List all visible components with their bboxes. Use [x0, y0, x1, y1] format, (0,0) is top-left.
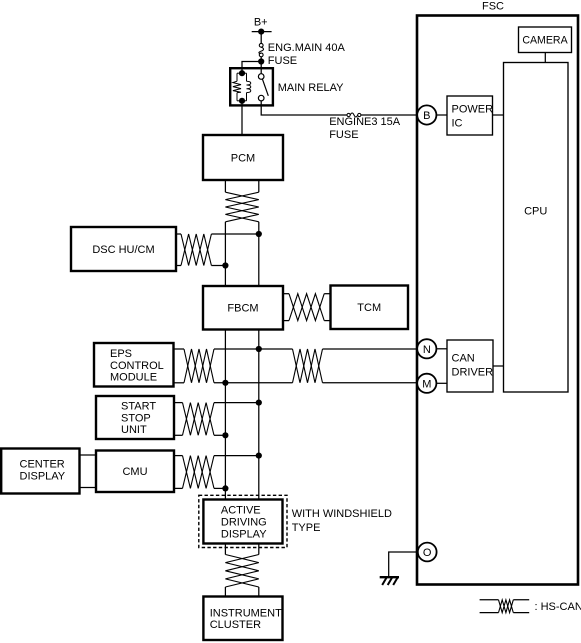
svg-text:N: N: [423, 344, 431, 356]
svg-text:PCM: PCM: [231, 153, 255, 165]
svg-text:ENG.MAIN 40A: ENG.MAIN 40A: [268, 42, 346, 54]
wire EPS CAN-L across buses: [214, 382, 293, 384]
svg-text:O: O: [423, 547, 432, 559]
wire CAMERA to CPU: [544, 53, 546, 63]
relay coil (resistor + inductor in parallel): [233, 73, 251, 101]
svg-text:MAIN RELAY: MAIN RELAY: [278, 82, 344, 94]
relay switch contact bottom: [258, 95, 264, 101]
svg-text:ACTIVE: ACTIVE: [221, 505, 261, 517]
relay coil top pin: [239, 70, 245, 76]
relay coil bottom pin: [239, 98, 245, 104]
junction DSC CAN-L on left bus: [222, 262, 228, 268]
module START STOP UNIT: [96, 396, 174, 439]
svg-text:CMU: CMU: [122, 466, 147, 478]
junction CMU CAN-H on right bus: [256, 453, 262, 459]
fuse F1 ENG.MAIN 40A: [259, 43, 264, 56]
svg-text:DISPLAY: DISPLAY: [20, 470, 66, 482]
wire CAN DRIVER to CPU: [493, 365, 504, 367]
junction SSU CAN-L on left bus: [222, 432, 228, 438]
junction DSC CAN-H on right bus: [256, 231, 262, 237]
node B+: [252, 17, 272, 35]
svg-text:: HS-CAN: : HS-CAN: [535, 601, 581, 613]
svg-text:DSC HU/CM: DSC HU/CM: [92, 244, 154, 256]
terminal M: [417, 374, 436, 393]
svg-text:FUSE: FUSE: [329, 129, 358, 141]
wire POWER IC to CPU: [493, 114, 504, 116]
wire junction to relay switch: [260, 62, 262, 74]
svg-text:DRIVING: DRIVING: [221, 517, 267, 529]
module EPS CONTROL MODULE: [94, 343, 174, 387]
module DSC HU/CM: [71, 227, 176, 271]
wire pair to INSTRUMENT CLUSTER (left): [224, 587, 226, 597]
wire CENTER DISPLAY to CMU (bottom): [80, 487, 97, 489]
svg-text:FUSE: FUSE: [268, 55, 297, 67]
relay MAIN RELAY box: [230, 68, 273, 105]
svg-text:B: B: [423, 110, 430, 122]
junction relay input: [258, 58, 264, 64]
bus left wire (FBCM to ADD): [224, 330, 226, 500]
bus right wire (FBCM to ADD): [258, 330, 260, 500]
junction SSU CAN-H on right bus: [256, 400, 262, 406]
svg-text:UNIT: UNIT: [121, 424, 147, 436]
twisted pair PCM-FBCM: [225, 192, 258, 222]
wire PCM to twisted pair (right): [258, 180, 260, 192]
wire B+ to fuse F1: [260, 32, 262, 44]
terminal B: [417, 105, 436, 124]
module POWER IC: [447, 96, 493, 135]
svg-text:CLUSTER: CLUSTER: [210, 619, 261, 631]
relay switch contact top: [258, 74, 264, 80]
svg-text:START: START: [121, 401, 156, 413]
module FBCM: [203, 286, 283, 330]
wire pair to INSTRUMENT CLUSTER (right): [258, 587, 260, 597]
wire PCM to twisted pair (left): [224, 180, 226, 192]
twisted pair DSC HU/CM to bus: [176, 234, 259, 266]
svg-text:IC: IC: [452, 118, 463, 130]
relay switch blade: [262, 79, 268, 96]
svg-text:FSC: FSC: [482, 1, 504, 13]
module CENTER DISPLAY: [1, 449, 79, 494]
svg-text:EPS: EPS: [110, 348, 132, 360]
twisted pair START STOP UNIT to bus: [174, 403, 259, 436]
twisted pair FBCM to TCM: [283, 294, 331, 321]
ground: [380, 577, 399, 585]
svg-text:B+: B+: [254, 17, 268, 29]
svg-text:INSTRUMENT: INSTRUMENT: [210, 607, 282, 619]
wire relay coil to PCM: [241, 101, 243, 135]
wire terminal M to CAN DRIVER: [436, 382, 447, 384]
wire fuse F1 to relay junction: [260, 57, 262, 62]
wire junction to relay coil: [242, 62, 261, 74]
svg-text:CAN: CAN: [452, 353, 475, 365]
svg-text:MODULE: MODULE: [110, 372, 157, 384]
svg-text:CENTER: CENTER: [20, 459, 65, 471]
wire terminal N to CAN DRIVER: [436, 348, 447, 350]
module CMU: [96, 451, 174, 493]
twisted pair ADD to INSTRUMENT CLUSTER: [225, 555, 258, 588]
svg-text:DISPLAY: DISPLAY: [221, 528, 267, 540]
wire CAN-L to terminal M: [323, 382, 418, 384]
wire terminal B to POWER IC: [436, 114, 447, 116]
terminal O: [418, 543, 437, 562]
junction EPS CAN-L on left bus: [222, 380, 228, 386]
bus left wire (pair to FBCM): [224, 222, 226, 286]
svg-text:POWER: POWER: [452, 104, 494, 116]
module PCM: [203, 135, 283, 180]
legend HS-CAN twisted pair symbol: [480, 600, 530, 613]
svg-text:ENGINE3 15A: ENGINE3 15A: [329, 116, 401, 128]
wire EPS CAN-H across buses: [214, 348, 293, 350]
svg-text:CAMERA: CAMERA: [522, 35, 568, 47]
svg-text:M: M: [422, 378, 431, 390]
svg-text:CPU: CPU: [524, 205, 547, 217]
svg-text:WITH WINDSHIELD: WITH WINDSHIELD: [292, 508, 392, 520]
svg-text:DRIVER: DRIVER: [452, 367, 494, 379]
fuse F2 ENGINE3 15A: [347, 113, 361, 117]
module FSC (outline): [417, 16, 578, 585]
wire relay switch to terminal B: [261, 101, 347, 115]
wire CAN-H to terminal N: [323, 348, 418, 350]
wire CENTER DISPLAY to CMU (top): [80, 454, 97, 456]
module ACTIVE DRIVING DISPLAY: [203, 500, 282, 544]
terminal N: [417, 339, 436, 358]
twisted pair CMU to bus: [174, 456, 259, 489]
wire ADD to twisted pair (left): [224, 544, 226, 555]
wire ADD to twisted pair (right): [258, 544, 260, 555]
module INSTRUMENT CLUSTER: [203, 597, 282, 641]
wire terminal O to ground: [389, 552, 418, 577]
module CAN DRIVER: [447, 340, 493, 392]
junction EPS CAN-H on right bus: [256, 346, 262, 352]
module TCM: [331, 286, 409, 330]
svg-text:STOP: STOP: [121, 412, 151, 424]
bus right wire (pair to FBCM): [258, 222, 260, 286]
module CPU: [504, 63, 569, 393]
svg-text:TCM: TCM: [357, 302, 381, 314]
module ACTIVE DRIVING DISPLAY (dashed option outline): [199, 495, 287, 547]
twisted pair bus to FSC terminals N/M: [293, 349, 323, 383]
module CAMERA: [519, 27, 572, 53]
twisted pair EPS to bus: [174, 349, 215, 383]
junction CMU CAN-L on left bus: [222, 485, 228, 491]
svg-text:TYPE: TYPE: [292, 522, 321, 534]
svg-text:FBCM: FBCM: [227, 303, 258, 315]
svg-text:CONTROL: CONTROL: [110, 360, 164, 372]
